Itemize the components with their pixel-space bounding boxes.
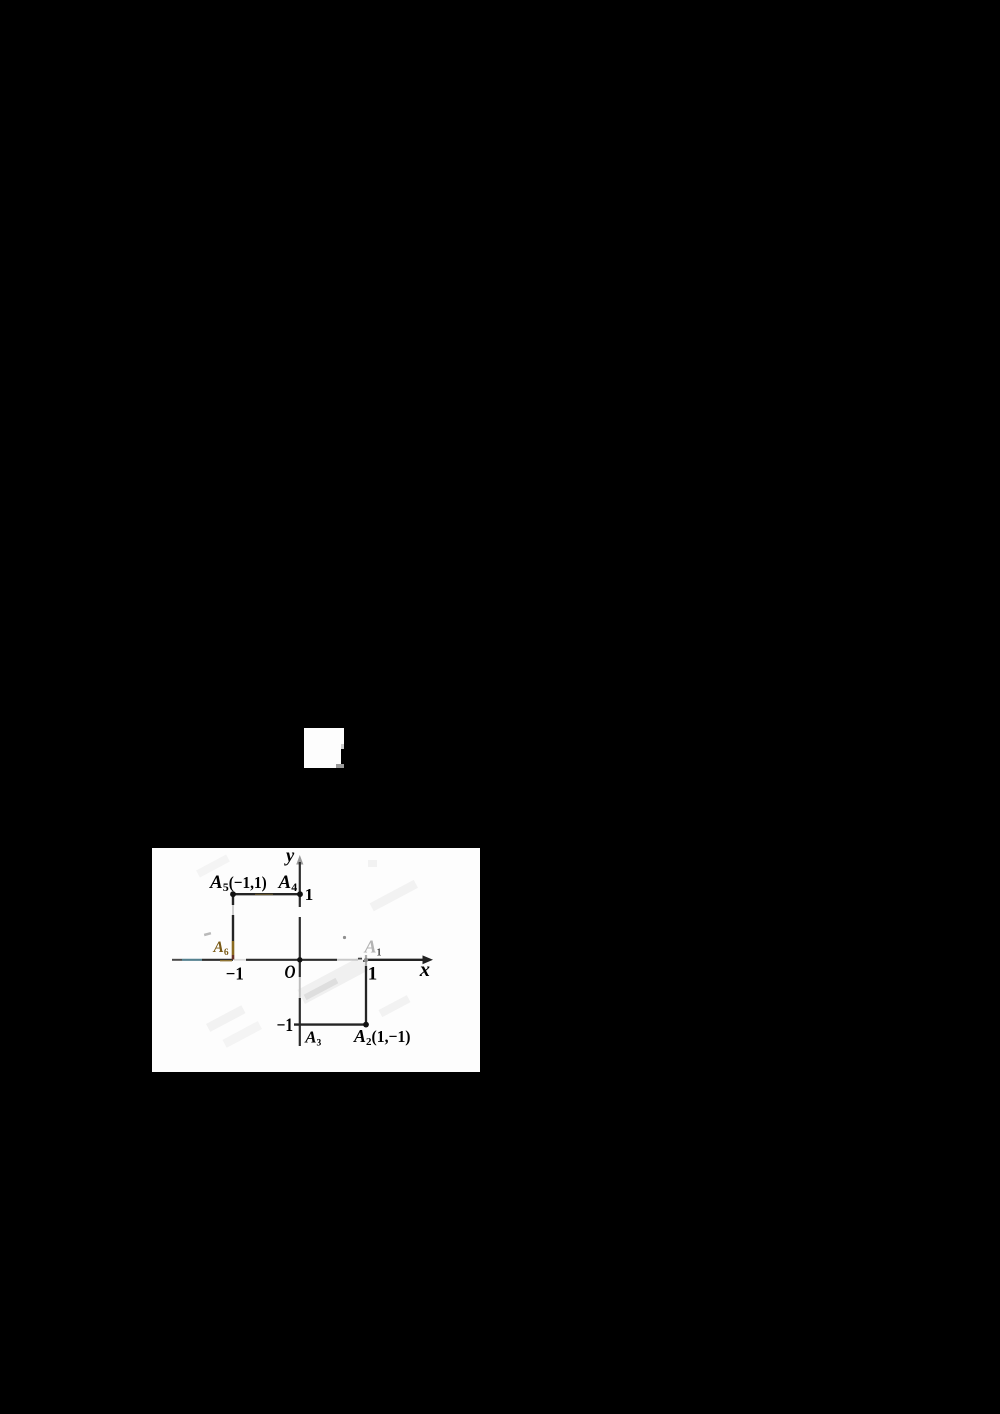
svg-text:A6: A6	[213, 939, 229, 958]
svg-text:A1: A1	[364, 937, 382, 959]
svg-text:−1: −1	[277, 1016, 294, 1036]
svg-text:1: 1	[368, 964, 378, 985]
svg-text:y: y	[284, 848, 295, 866]
svg-text:O: O	[285, 962, 296, 983]
svg-text:x: x	[419, 959, 430, 981]
svg-text:A4: A4	[278, 872, 298, 894]
svg-text:A5(−1,1): A5(−1,1)	[209, 872, 267, 894]
svg-text:A2(1,−1): A2(1,−1)	[353, 1026, 411, 1048]
svg-text:−1: −1	[226, 964, 244, 984]
svg-text:1: 1	[305, 885, 314, 904]
svg-text:A3: A3	[304, 1027, 321, 1048]
